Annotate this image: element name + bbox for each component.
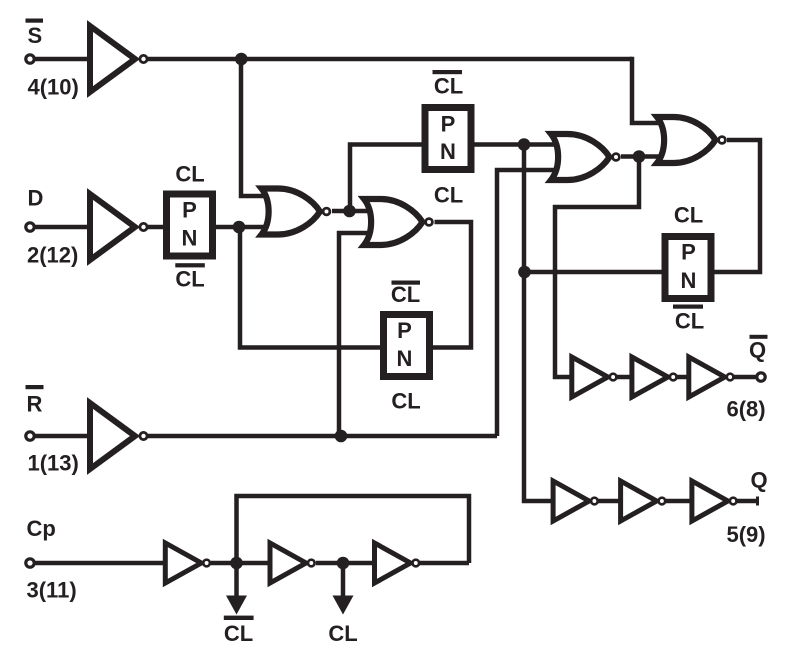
svg-text:4(10): 4(10) [28,75,79,100]
input terminal Rbar [26,432,34,440]
wire D inverter to transmission gate TG1 [148,225,167,230]
svg-text:P: P [182,197,197,222]
overline bar of CLbar below TG4 [673,305,703,309]
wire Q chain link 1 [598,499,621,504]
svg-text:Cp: Cp [27,516,56,541]
wire R line up to NOR3 bottom input [497,170,564,436]
wire TG1 output to NOR1 bottom input [214,225,274,230]
junction clock node A [230,557,243,570]
wire CL tap stem [341,563,346,598]
CLbar tap arrowhead [226,596,247,615]
clock inverter 2 [270,543,315,583]
svg-text:D: D [28,186,44,211]
wire NOR3 output to NOR4 bottom input [621,154,670,159]
inverter D buffer [90,194,147,260]
wire node down from TG2 output line to Q inverter chain [524,145,556,502]
junction on S line [235,53,248,66]
wire R input lead [34,434,92,439]
wire TG4 left side to slave node [524,270,665,275]
svg-text:R: R [27,391,43,416]
wire Q chain link 2 [666,499,692,504]
transmission gate TG3 master feedback [384,315,430,377]
wire S input lead [34,57,92,62]
wire S line elbow down to NOR4 top input [632,57,670,123]
svg-text:P: P [397,318,412,343]
wire CL node to third clock inverter [316,561,376,566]
svg-text:Q: Q [750,468,767,493]
wire CLbar tap stem [234,563,239,598]
wire S inverter output to right elbow [148,57,632,62]
overline bar of Qbar output label [750,335,768,339]
wire NOR3 output branch down and over to Qbar inverter chain [555,157,639,378]
overline bar of R input label [26,385,44,389]
clock inverter 3 [375,543,420,583]
wire D input lead [34,225,92,230]
wire NOR2 output wrap down to TG3 right side [429,222,471,348]
wire third clock inverter output [420,561,469,566]
Q chain inverter 3 [692,481,737,521]
junction at NOR1 output node [343,205,356,218]
svg-text:1(13): 1(13) [28,451,79,476]
junction at NOR3 output node [633,150,646,163]
clock inverter 1 [165,543,210,583]
svg-text:CL: CL [391,282,420,307]
junction clock CL node [337,557,350,570]
wire clock feedback loop [237,496,470,563]
wire Qbar chain to output terminal [733,375,756,380]
transmission gate TG1 on D path [167,194,213,256]
svg-text:CL: CL [175,267,204,292]
NOR gate 3 slave set gate [551,134,619,180]
wire Cp input lead [34,561,167,566]
svg-text:P: P [441,112,456,137]
transmission gate TG4 slave feedback [665,237,711,299]
svg-text:2(12): 2(12) [27,243,78,268]
svg-text:CL: CL [434,183,463,208]
svg-text:Q: Q [749,338,766,363]
junction at slave node on vertical [518,266,531,279]
junction on R line [335,430,348,443]
input terminal D [26,223,34,231]
svg-text:3(11): 3(11) [27,578,77,603]
Qbar chain inverter 1 [572,357,617,397]
Qbar chain inverter 3 [689,357,734,397]
Q output end tick [756,497,759,506]
wire R branch up to NOR2 bottom input [339,233,377,436]
wire node up from NOR1 output to TG2 left side [350,145,425,212]
output terminal Qbar [757,373,765,381]
Qbar chain inverter 2 [632,357,677,397]
svg-text:N: N [397,346,413,371]
svg-text:S: S [28,23,43,48]
svg-text:CL: CL [674,203,703,228]
overline bar of S input label [26,19,44,23]
wire Q chain output lead [737,499,757,504]
wire Qbar chain link 2 [676,375,689,380]
NOR gate 4 slave output gate [657,117,725,163]
svg-text:N: N [440,139,456,164]
Q chain inverter 2 [621,481,666,521]
svg-text:CL: CL [391,389,420,414]
overline bar of CLbar above TG3 [392,281,421,285]
svg-text:CL: CL [175,161,204,186]
wire D-node down and right to TG3 left side [240,227,384,348]
overline bar of CL below TG1 [175,263,205,267]
CL tap arrowhead [333,596,354,615]
Q chain inverter 1 [553,481,598,521]
junction at TG2 output line [518,138,531,151]
wire NOR1 output to NOR2 top input [332,209,377,214]
NOR gate 1 master set gate [262,189,330,235]
svg-text:N: N [182,226,198,251]
wire R inverter output line [148,434,497,439]
wire Qbar chain link 1 [617,375,632,380]
wire S branch down to NOR1 top input [241,59,274,196]
svg-text:P: P [681,240,696,265]
svg-text:CL: CL [328,621,357,646]
junction at D-node [233,221,246,234]
inverter R buffer [90,403,147,469]
svg-text:5(9): 5(9) [727,522,766,547]
svg-text:6(8): 6(8) [727,397,766,422]
svg-text:CL: CL [434,74,463,99]
svg-text:N: N [681,268,697,293]
NOR gate 2 master reset gate [364,199,432,245]
input terminal Cp [26,559,34,567]
wire clock node A to second clock inverter [211,561,272,566]
svg-text:CL: CL [224,621,253,646]
input terminal Sbar [26,55,34,63]
wire TG2 output to NOR3 top input [471,142,564,147]
overline bar of CLbar above TG2 [433,70,463,74]
transmission gate TG2 master to slave [425,108,471,170]
svg-text:CL: CL [675,309,704,334]
wire NOR4 output wrap down to TG4 right side [713,140,760,272]
overline bar of CLbar tap label [224,616,254,620]
inverter S buffer [90,26,147,92]
